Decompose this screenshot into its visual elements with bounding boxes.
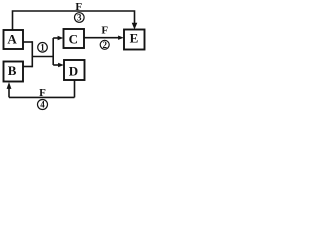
wire junction vertical [31,41,33,67]
svg-text:A: A [7,31,17,46]
svg-text:E: E [130,31,139,46]
svg-text:F: F [101,25,108,37]
circle 3 ring [75,13,85,23]
box B [4,62,24,82]
wire split vertical [52,38,54,65]
wire bottom across [9,96,75,98]
wire A right to junction [23,41,32,43]
box D [64,60,85,80]
wire B right to junction [23,66,32,68]
svg-text:F: F [39,87,46,99]
svg-text:D: D [69,63,78,78]
svg-text:4: 4 [40,100,45,110]
svg-text:1: 1 [40,42,45,52]
svg-text:B: B [8,63,17,78]
arrowhead into E left [118,36,124,40]
arrowhead into E top [132,23,138,30]
wire up to B [8,88,10,98]
wire split to C [53,37,58,39]
box A [4,30,24,49]
svg-text:2: 2 [102,40,107,50]
svg-text:3: 3 [77,13,82,23]
box E [124,30,145,50]
arrowhead into B bottom [7,82,12,89]
wire split to D [53,64,59,66]
svg-text:F: F [75,1,82,13]
wire top: A up, across, down to E [13,11,135,30]
circle 4 ring [38,100,48,110]
svg-text:C: C [69,32,78,47]
wire D down [74,80,76,97]
wire C to E [84,37,119,39]
arrowhead into D [58,63,64,67]
circle 1 ring [38,43,48,53]
circle 2 ring [100,40,109,49]
arrowhead into C [58,36,64,40]
wire middle to split [32,56,54,58]
box C [64,29,85,48]
